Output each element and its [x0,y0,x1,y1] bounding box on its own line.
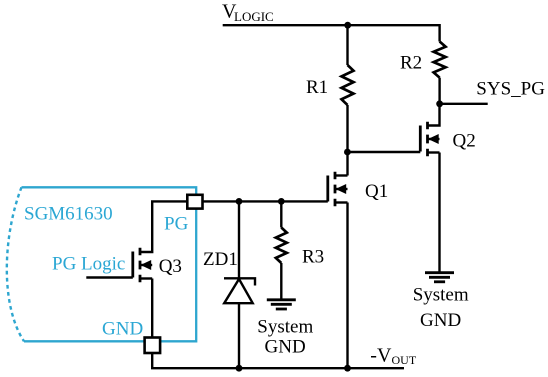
pin GND square [145,338,161,354]
wire R1 top lead [346,25,348,65]
wire R3 top lead [280,201,282,227]
wire Q2 drain lead [428,104,440,126]
node junction dot Q1 drain / Q2 gate [344,149,351,156]
svg-text:System: System [413,285,469,306]
transistor Q2 [420,122,439,156]
resistor R3 [276,228,287,264]
resistor R1 [342,65,354,105]
svg-text:PG: PG [164,214,189,235]
wire R1 bottom to Q1 drain [346,105,348,176]
svg-text:GND: GND [265,337,306,358]
wire GND pin to bottom rail [152,353,404,368]
wire PG square to Q3 drain [140,201,187,252]
svg-text:Q1: Q1 [365,181,388,202]
node V_LOGIC label [222,1,274,25]
wire ZD1 bottom lead [238,303,240,368]
resistor R2 [434,42,446,78]
svg-text:SYS_PG: SYS_PG [476,78,545,99]
svg-text:Q3: Q3 [159,256,182,277]
transistor Q3 [133,248,152,282]
ground System GND (right) [425,273,454,282]
svg-text:SGM61630: SGM61630 [24,203,113,224]
node junction dot Q1 source bottom [344,365,351,372]
svg-text:-V: -V [370,345,392,367]
node junction dot R3 top [278,198,285,205]
transistor Q1 [328,172,348,206]
node junction dot ZD1 top [236,198,243,205]
node -V_OUT label [370,345,417,368]
diode ZD1 (zener) [224,278,255,303]
svg-text:GND: GND [420,310,461,331]
svg-text:PG Logic: PG Logic [52,254,125,275]
ground System GND (left) [267,300,296,309]
wire top rail V_LOGIC to R2 corner [223,25,440,41]
svg-text:R2: R2 [400,53,422,74]
node junction dot ZD1 bottom [236,365,243,372]
wire R3 bottom lead [280,263,282,300]
wire Q1 source to bottom rail [346,203,348,369]
wire ZD1 top lead [238,201,240,278]
svg-text:GND: GND [102,319,143,340]
SGM61630 block outline [7,187,196,341]
svg-text:R3: R3 [302,247,324,268]
wire SYS_PG stub [440,103,488,105]
svg-text:R1: R1 [306,77,328,98]
node junction dot top rail / R1 [344,22,351,29]
pin PG square [187,195,202,209]
wire Q1 drain junction to Q2 gate [347,151,420,153]
wire Q3 gate lead [86,276,133,278]
wire Q2 source lead [438,153,440,273]
wire Q1 drain stub [335,174,348,176]
svg-text:ZD1: ZD1 [203,249,238,270]
svg-text:Q2: Q2 [453,130,476,151]
node junction dot SYS_PG [436,100,443,107]
svg-text:LOGIC: LOGIC [234,9,274,24]
wire Q3 source to GND pin [151,279,153,338]
wire R2 bottom lead to SYS_PG junction [438,78,440,104]
wire PG pin to Q1 gate [202,200,327,202]
svg-text:System: System [257,317,313,338]
svg-text:OUT: OUT [392,353,417,367]
